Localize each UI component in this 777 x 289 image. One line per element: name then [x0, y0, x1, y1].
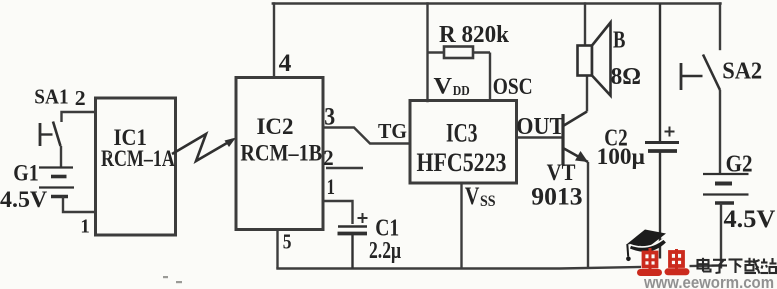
svg-text:TG: TG — [378, 119, 407, 143]
watermark graduation cap — [626, 230, 666, 262]
capacitor C1 — [338, 213, 368, 269]
wire G2 to ground rail — [720, 203, 722, 269]
speaker B — [578, 23, 611, 96]
wire speaker top — [584, 4, 586, 46]
svg-text:SA1: SA1 — [34, 85, 68, 109]
wire R to OSC pin — [489, 53, 491, 102]
svg-text:HFC5223: HFC5223 — [417, 148, 507, 177]
svg-text:SA2: SA2 — [722, 59, 762, 85]
battery G2 — [703, 174, 749, 203]
watermark white backing — [641, 259, 690, 270]
wire VDD vertical rail to IC3 — [426, 4, 428, 102]
wire IC2 pin5 to ground rail — [276, 230, 278, 269]
svg-text:4.5V: 4.5V — [0, 187, 48, 212]
svg-text:RCM–1B: RCM–1B — [240, 140, 322, 166]
svg-text:B: B — [613, 28, 625, 54]
svg-text:G2: G2 — [726, 151, 753, 177]
switch SA2 — [680, 55, 720, 91]
watermark chongchong red characters — [641, 248, 687, 273]
svg-text:9013: 9013 — [531, 182, 582, 211]
svg-text:2.2μ: 2.2μ — [369, 238, 401, 264]
wire SA1 to G1 — [60, 146, 62, 167]
svg-text:8Ω: 8Ω — [611, 64, 641, 90]
svg-text:IC2: IC2 — [257, 114, 294, 140]
svg-text:2: 2 — [323, 145, 333, 170]
battery G1 — [39, 168, 74, 197]
IC3 HFC5223 — [410, 101, 517, 184]
VSS pin label — [465, 183, 496, 210]
svg-text:R 820k: R 820k — [439, 22, 510, 48]
switch SA1 — [39, 122, 61, 147]
wire VT emitter to ground rail — [587, 162, 589, 269]
svg-text:DD: DD — [453, 83, 470, 98]
wire top supply rail — [273, 2, 721, 4]
wire bottom ground rail — [278, 266, 722, 269]
VDD pin label — [434, 74, 471, 99]
svg-text:RCM–1A: RCM–1A — [101, 146, 175, 171]
IC2 RCM-1B — [236, 78, 323, 230]
scan specks — [108, 153, 182, 283]
svg-text:1: 1 — [327, 174, 335, 199]
RF link zigzag arrow — [172, 134, 236, 161]
capacitor C2 — [645, 4, 679, 269]
wire IC2 pin4 to top rail — [273, 4, 275, 78]
wire SA2 to G2 — [719, 90, 721, 174]
IC1 RCM-1A — [96, 98, 176, 235]
svg-text:2: 2 — [75, 86, 86, 110]
svg-text:www.eeworm.com: www.eeworm.com — [643, 274, 774, 289]
svg-text:IC3: IC3 — [446, 119, 478, 148]
svg-text:OSC: OSC — [493, 74, 533, 99]
resistor R 820k — [428, 47, 491, 59]
svg-text:100μ: 100μ — [597, 144, 645, 169]
svg-text:V: V — [465, 183, 480, 210]
wire IC3 VSS to ground rail — [460, 183, 462, 269]
wire IC2 pin3 to IC3 TG — [323, 128, 410, 144]
wire speaker bottom to VT collector — [586, 76, 588, 112]
svg-text:1: 1 — [80, 216, 89, 238]
wire G1 to IC1 pin1 — [63, 197, 96, 213]
svg-text:SS: SS — [480, 193, 496, 210]
wire SA2 top contact — [719, 4, 721, 50]
svg-text:4.5V: 4.5V — [724, 206, 776, 233]
watermark site name characters — [698, 258, 777, 274]
svg-text:5: 5 — [283, 229, 292, 253]
wire IC2 pin1 to C1 — [323, 201, 353, 224]
svg-text:V: V — [434, 74, 453, 99]
svg-text:4: 4 — [279, 50, 292, 77]
svg-text:OUT: OUT — [516, 114, 564, 140]
transistor VT 9013 — [563, 112, 588, 166]
svg-text:G1: G1 — [13, 160, 38, 185]
wire SA1 to IC1 pin2 — [62, 112, 96, 122]
IC2 pin 2 stub — [326, 167, 363, 169]
wire IC3 OUT to VT base — [517, 136, 564, 138]
